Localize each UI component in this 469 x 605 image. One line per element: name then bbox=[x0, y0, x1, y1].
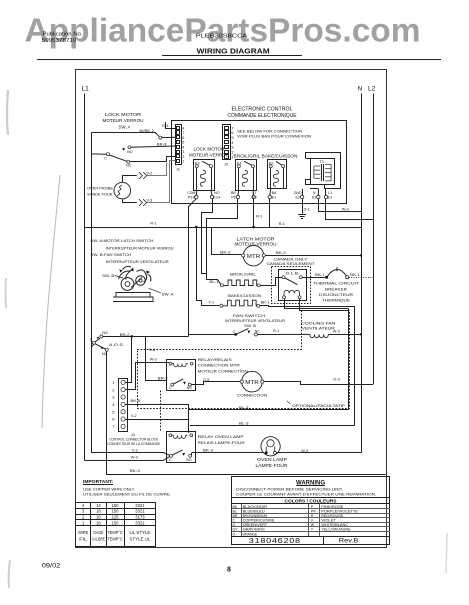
svg-text:3173: 3173 bbox=[135, 515, 145, 520]
svg-text:BR-2: BR-2 bbox=[158, 377, 168, 381]
svg-text:BL-1: BL-1 bbox=[210, 280, 219, 284]
wire BK-2 feed to latch motor bbox=[212, 227, 242, 255]
svg-text:NO: NO bbox=[186, 458, 192, 462]
terminal N E2 bbox=[317, 195, 320, 198]
svg-text:MTR: MTR bbox=[245, 380, 259, 386]
wire J4 pin1 to A.O.S. NO net bbox=[125, 338, 131, 383]
wire J4 pin6 V-2 bbox=[125, 419, 189, 421]
svg-text:E1: E1 bbox=[328, 195, 332, 199]
svg-text:E14: E14 bbox=[213, 195, 220, 199]
wire fan switch to cooling fan coil R-1 bbox=[257, 333, 309, 335]
wire A.O.S. C drop bbox=[92, 344, 94, 347]
terminal COM P10 bbox=[195, 195, 198, 198]
wire to J1 pin6 bbox=[162, 136, 176, 138]
svg-text:VENTILATEUR: VENTILATEUR bbox=[302, 326, 335, 331]
electronic control box bbox=[172, 121, 347, 204]
svg-text:8: 8 bbox=[182, 126, 184, 130]
relay K1 bbox=[236, 160, 257, 191]
svg-text:V-3: V-3 bbox=[132, 448, 138, 452]
svg-text:5: 5 bbox=[182, 141, 184, 145]
svg-text:N: N bbox=[358, 86, 363, 93]
svg-text:6: 6 bbox=[182, 136, 184, 140]
junction dot BR-2 bbox=[131, 335, 134, 338]
header rule bbox=[37, 59, 441, 61]
svg-text:V-2: V-2 bbox=[131, 414, 137, 418]
connector J4 control connector block bbox=[119, 379, 128, 432]
wire K1 coil to terminals bbox=[237, 190, 240, 195]
wire SW.A left loop bbox=[92, 132, 107, 154]
wire relay NO to fan motor O-5 bbox=[191, 382, 241, 385]
terminal SW.A common-right bbox=[159, 136, 162, 139]
svg-text:MTR: MTR bbox=[247, 254, 261, 260]
svg-text:R-1: R-1 bbox=[273, 329, 279, 333]
junction dots on R-1 bus bbox=[195, 226, 198, 229]
svg-text:16: 16 bbox=[96, 515, 101, 520]
svg-text:WHITE/BLANC: WHITE/BLANC bbox=[321, 523, 348, 527]
label optional/facultatif bbox=[287, 401, 290, 404]
svg-text:W-3: W-3 bbox=[131, 455, 138, 459]
svg-text:W: W bbox=[311, 523, 315, 527]
svg-text:COLORS / COULEURS: COLORS / COULEURS bbox=[285, 499, 337, 504]
wire W-3 into lamp relay C bbox=[85, 457, 170, 461]
svg-text:VIOLET: VIOLET bbox=[321, 519, 337, 523]
svg-text:INTERRUPTEUR MOTEUR VERROU: INTERRUPTEUR MOTEUR VERROU bbox=[106, 245, 174, 250]
wire cooling fan to N bbox=[328, 334, 361, 336]
svg-text:125: 125 bbox=[112, 515, 120, 520]
svg-text:BL-3: BL-3 bbox=[239, 406, 249, 410]
svg-text:BK: BK bbox=[233, 505, 238, 509]
svg-text:G-1: G-1 bbox=[304, 207, 310, 211]
svg-text:BROIL/GRIL BAKE/CUISSON: BROIL/GRIL BAKE/CUISSON bbox=[234, 154, 298, 159]
svg-text:V-3: V-3 bbox=[147, 198, 153, 202]
connector J2 bbox=[223, 125, 231, 160]
wire A.O.S. NC drop to BK-3 bbox=[106, 351, 108, 475]
svg-text:O: O bbox=[233, 532, 236, 536]
wire bake trunk Y-1 bbox=[197, 227, 220, 306]
svg-text:J3: J3 bbox=[224, 163, 228, 167]
svg-text:3321: 3321 bbox=[135, 509, 145, 514]
svg-text:WIRING DIAGRAM: WIRING DIAGRAM bbox=[197, 49, 270, 56]
svg-text:CONNECTION: CONNECTION bbox=[237, 393, 267, 398]
svg-text:LOCK MOTOR: LOCK MOTOR bbox=[194, 147, 225, 152]
contact NO of SW.A bbox=[128, 146, 131, 149]
wire breaker to L2 dotted bbox=[349, 277, 373, 279]
svg-text:T1: T1 bbox=[320, 159, 325, 164]
svg-text:R: R bbox=[311, 514, 314, 518]
wire BK-3 bottom bus bbox=[107, 474, 386, 476]
svg-text:SW. A:MOTOR LATCH SWITCH: SW. A:MOTOR LATCH SWITCH bbox=[90, 238, 153, 243]
svg-text:GRAY/GRIS: GRAY/GRIS bbox=[243, 528, 266, 532]
svg-text:318046208: 318046208 bbox=[249, 536, 301, 545]
svg-text:D.L.B.: D.L.B. bbox=[286, 270, 300, 275]
wire E9 drop to bus bbox=[253, 199, 255, 227]
svg-text:7: 7 bbox=[182, 131, 184, 135]
connector J1 bbox=[176, 125, 182, 165]
cooling fan motor MTR bbox=[242, 371, 263, 392]
svg-text:WIRE: WIRE bbox=[78, 530, 89, 535]
svg-text:1: 1 bbox=[182, 160, 184, 164]
svg-text:W-3: W-3 bbox=[333, 330, 340, 334]
svg-text:8: 8 bbox=[227, 567, 231, 574]
svg-text:R-1: R-1 bbox=[256, 215, 262, 219]
svg-text:C: C bbox=[233, 519, 236, 523]
svg-text:PURPLE/VIOLETTE: PURPLE/VIOLETTE bbox=[321, 509, 358, 513]
svg-text:YELLOW/JAUNE: YELLOW/JAUNE bbox=[321, 528, 351, 532]
wire L2 vertical bbox=[373, 94, 375, 385]
svg-text:09/02: 09/02 bbox=[42, 563, 61, 570]
svg-text:SW. B: SW. B bbox=[102, 273, 114, 278]
svg-text:FIL: FIL bbox=[79, 537, 88, 542]
svg-text:BROWN/BRUN: BROWN/BRUN bbox=[243, 514, 268, 518]
svg-text:P6: P6 bbox=[231, 195, 235, 199]
svg-text:VOIR PLUS BAS POUR CONNEXION: VOIR PLUS BAS POUR CONNEXION bbox=[237, 133, 311, 138]
wire L1 E1 to L2 line bbox=[326, 199, 374, 220]
terminal NO E14 bbox=[210, 195, 213, 198]
coil of DLB bbox=[284, 290, 300, 296]
svg-text:14: 14 bbox=[96, 503, 101, 508]
svg-text:PINK/ROSE: PINK/ROSE bbox=[321, 505, 344, 509]
terminal BA E1 of K2 bbox=[268, 195, 271, 198]
svg-text:NC: NC bbox=[126, 164, 132, 168]
svg-text:RED/ROUGE: RED/ROUGE bbox=[321, 514, 344, 518]
svg-text:BK-3: BK-3 bbox=[203, 449, 213, 453]
svg-text:150: 150 bbox=[112, 520, 120, 525]
svg-text:BL: BL bbox=[233, 509, 237, 513]
svg-text:BLUE/BLEU: BLUE/BLEU bbox=[243, 509, 265, 513]
svg-text:THERMIQUE: THERMIQUE bbox=[322, 298, 350, 303]
dashed link relay to lamp relay bbox=[160, 391, 162, 432]
svg-text:OPTIONAL/FACULTATIF: OPTIONAL/FACULTATIF bbox=[292, 403, 346, 408]
thermal circuit breaker bbox=[325, 276, 328, 279]
svg-text:D-8: D-8 bbox=[149, 348, 155, 352]
wire K3 coil to terminals bbox=[195, 190, 198, 195]
wire SW.A loop long vertical bbox=[91, 154, 93, 453]
transformer T1 bbox=[306, 153, 341, 189]
svg-text:3321: 3321 bbox=[135, 503, 145, 508]
svg-text:CALIBRE: CALIBRE bbox=[92, 537, 105, 542]
svg-text:4: 4 bbox=[182, 145, 184, 149]
svg-text:BREAKER: BREAKER bbox=[325, 286, 347, 291]
wire probe V-3 to J1 pin1 bbox=[123, 199, 137, 203]
svg-text:INTERRUPTEUR VENTILATEUR: INTERRUPTEUR VENTILATEUR bbox=[106, 259, 169, 264]
svg-text:J4: J4 bbox=[131, 433, 135, 437]
svg-text:3: 3 bbox=[231, 146, 233, 150]
wire DLB coil returns bbox=[285, 299, 349, 309]
svg-text:CANADA SEULEMENT: CANADA SEULEMENT bbox=[267, 261, 316, 266]
svg-text:BAKE/CUISSON: BAKE/CUISSON bbox=[228, 293, 261, 298]
svg-text:BROIL/GRIL: BROIL/GRIL bbox=[230, 271, 257, 276]
svg-text:BK-2: BK-2 bbox=[276, 251, 286, 255]
svg-text:SONDE FOUR: SONDE FOUR bbox=[87, 191, 113, 196]
svg-text:SW. B: SW. B bbox=[244, 323, 256, 328]
terminal GND E3 bbox=[300, 195, 303, 198]
relay K2 bbox=[268, 160, 287, 189]
wire BK-2 latch motor to N bbox=[265, 255, 361, 257]
wire A.O.S. NO to BR-2 junction bbox=[103, 336, 132, 338]
svg-text:SW. A: SW. A bbox=[162, 291, 174, 296]
svg-text:SW. A: SW. A bbox=[119, 124, 131, 129]
svg-text:RELAY OVEN LAMP: RELAY OVEN LAMP bbox=[198, 434, 244, 439]
svg-text:BK-2: BK-2 bbox=[220, 250, 231, 254]
terminal L1 E1 bbox=[324, 195, 327, 198]
svg-text:COPPER/CUIVRE: COPPER/CUIVRE bbox=[243, 519, 275, 523]
svg-text:MOTEUR-VERROU: MOTEUR-VERROU bbox=[189, 153, 229, 158]
svg-text:W-3: W-3 bbox=[342, 207, 349, 211]
svg-text:5: 5 bbox=[231, 136, 233, 140]
relay K3 bbox=[194, 160, 215, 191]
oven lamp bbox=[261, 437, 280, 456]
wire W-3 to relay coil bbox=[136, 363, 170, 390]
svg-text:A.O.S.: A.O.S. bbox=[109, 342, 124, 347]
svg-text:TEMP°C: TEMP°C bbox=[107, 537, 123, 542]
svg-text:V-2: V-2 bbox=[147, 171, 153, 175]
svg-text:E1: E1 bbox=[272, 195, 276, 199]
svg-text:E9: E9 bbox=[252, 195, 256, 199]
wire oven lamp to N bbox=[276, 452, 361, 454]
contact NC of SW.A bbox=[127, 160, 130, 163]
svg-text:IMPORTANT:: IMPORTANT: bbox=[83, 479, 114, 484]
svg-text:3321: 3321 bbox=[135, 520, 145, 525]
svg-text:3: 3 bbox=[182, 150, 184, 154]
relay connection MTR box bbox=[167, 360, 196, 391]
svg-text:BK-3: BK-3 bbox=[130, 469, 140, 473]
latch mechanism pictorial bbox=[113, 293, 153, 302]
svg-text:MOTEUR VERROU: MOTEUR VERROU bbox=[103, 118, 144, 123]
terminal BR P6 bbox=[236, 195, 239, 198]
svg-text:THERMAL CIRCUIT: THERMAL CIRCUIT bbox=[313, 280, 360, 285]
oven probe sensor bbox=[114, 182, 131, 199]
svg-text:BLACK/NOIR: BLACK/NOIR bbox=[243, 505, 268, 509]
dashed box optional bbox=[137, 311, 349, 409]
svg-text:P10: P10 bbox=[188, 195, 195, 199]
wire fan motor to L2 O-3 bbox=[264, 382, 373, 385]
switch blade SW.A bbox=[109, 155, 127, 161]
svg-text:O-5: O-5 bbox=[203, 378, 209, 382]
svg-text:R-1: R-1 bbox=[150, 222, 156, 226]
svg-text:6: 6 bbox=[231, 131, 233, 135]
svg-text:4: 4 bbox=[231, 141, 233, 145]
wire bake return bbox=[260, 306, 355, 426]
wire broil return trunk bbox=[348, 309, 350, 410]
svg-text:NO: NO bbox=[187, 386, 193, 390]
relay DLB bbox=[279, 270, 307, 301]
svg-text:E3: E3 bbox=[295, 195, 299, 199]
svg-text:BR: BR bbox=[233, 514, 238, 518]
svg-text:MOTEUR CONNECTION: MOTEUR CONNECTION bbox=[198, 369, 248, 374]
scan artifact left curve bbox=[42, 175, 60, 428]
svg-text:R-3: R-3 bbox=[162, 124, 168, 128]
wire BL-3 upper bbox=[189, 409, 349, 411]
svg-text:Publication No.: Publication No. bbox=[43, 31, 83, 37]
svg-text:OVEN LAMP: OVEN LAMP bbox=[257, 457, 287, 462]
svg-text:RELAY/RELAIS: RELAY/RELAIS bbox=[198, 357, 232, 362]
svg-text:C: C bbox=[169, 458, 172, 462]
svg-text:5995378710: 5995378710 bbox=[42, 38, 77, 44]
wire V-3 into lamp relay C bbox=[92, 453, 170, 456]
svg-text:L1: L1 bbox=[82, 86, 90, 93]
wire broil to DLB switch bbox=[260, 278, 282, 286]
wire N vertical bbox=[361, 94, 363, 453]
svg-text:DISJONCTEUR: DISJONCTEUR bbox=[319, 292, 353, 297]
svg-text:150: 150 bbox=[112, 503, 120, 508]
wire J4 pin4 BK-5 bbox=[125, 405, 188, 434]
latch motor MTR bbox=[243, 246, 263, 266]
svg-text:UTILISER SEULEMENT DU FIL DE C: UTILISER SEULEMENT DU FIL DE CUIVRE. bbox=[83, 492, 171, 497]
svg-text:R-1: R-1 bbox=[279, 222, 285, 226]
color code table bbox=[232, 508, 390, 510]
wire K2 coil to terminal bbox=[269, 189, 272, 196]
svg-text:PR: PR bbox=[311, 509, 316, 513]
wire BL-3 lower bbox=[190, 425, 355, 427]
svg-text:W-3: W-3 bbox=[150, 357, 157, 361]
svg-text:AppliancePartsPros.com: AppliancePartsPros.com bbox=[25, 13, 421, 50]
svg-text:LAMPE-FOUR: LAMPE-FOUR bbox=[256, 463, 288, 468]
wire BR-3 from NO contact to J1 pin5 bbox=[131, 146, 176, 147]
svg-text:COMMANDE ELECTRONIQUE: COMMANDE ELECTRONIQUE bbox=[228, 113, 298, 119]
svg-text:E2: E2 bbox=[312, 195, 316, 199]
svg-text:BR-2: BR-2 bbox=[120, 333, 130, 337]
svg-text:O-3: O-3 bbox=[333, 378, 339, 382]
svg-text:CONNECTEUR DE LA COMMANDE: CONNECTEUR DE LA COMMANDE bbox=[107, 442, 160, 446]
diagram frame bbox=[76, 70, 387, 548]
svg-text:BK-1: BK-1 bbox=[261, 300, 270, 304]
wire BR P6 trunk to broil BL-1 bbox=[207, 199, 238, 285]
wire N E2 to N line bbox=[319, 199, 362, 212]
svg-text:150: 150 bbox=[112, 509, 120, 514]
svg-text:BL-3: BL-3 bbox=[239, 422, 249, 426]
ground G-1 bbox=[302, 199, 304, 214]
svg-text:C: C bbox=[169, 386, 172, 390]
svg-text:RELAIS LAMPE-FOUR: RELAIS LAMPE-FOUR bbox=[198, 440, 245, 445]
wire NO E14 trunk bbox=[202, 199, 213, 274]
wire T1 to terminals bbox=[317, 189, 319, 196]
svg-text:CONNECTION MTR: CONNECTION MTR bbox=[198, 363, 240, 368]
svg-text:ELECTRONIC CONTROL: ELECTRONIC CONTROL bbox=[232, 106, 293, 112]
svg-text:GREEN/VERT: GREEN/VERT bbox=[243, 523, 268, 527]
svg-text:BK-5: BK-5 bbox=[130, 399, 140, 403]
wire BK-3 relay NO to oven lamp bbox=[191, 453, 193, 456]
wire J4 pin2 up to W-3 bbox=[125, 389, 135, 391]
svg-text:SW. B:FAN SWITCH: SW. B:FAN SWITCH bbox=[90, 252, 131, 257]
svg-text:UL STYLE: UL STYLE bbox=[130, 530, 151, 535]
svg-text:OVEN PROBE: OVEN PROBE bbox=[87, 185, 113, 190]
svg-text:Rev.B: Rev.B bbox=[339, 537, 359, 544]
svg-text:W-3: W-3 bbox=[301, 449, 308, 453]
svg-text:COOLING FAN: COOLING FAN bbox=[301, 320, 335, 325]
svg-text:C: C bbox=[104, 156, 107, 160]
svg-text:Y-1: Y-1 bbox=[209, 300, 215, 304]
svg-text:TEMP°C: TEMP°C bbox=[107, 530, 123, 535]
wire R-1 bus bbox=[85, 227, 362, 229]
terminal L1 E9 bbox=[252, 195, 255, 198]
warning box bbox=[232, 477, 390, 545]
wire L1 vertical bbox=[84, 94, 86, 461]
svg-text:7: 7 bbox=[231, 126, 233, 130]
svg-text:NO: NO bbox=[127, 150, 133, 154]
wire fan line bbox=[132, 336, 189, 338]
svg-text:PLEB30S8CCA: PLEB30S8CCA bbox=[196, 34, 248, 40]
svg-text:COUPER LE COURANT AVANT D'EFFE: COUPER LE COURANT AVANT D'EFFECTUER UNE … bbox=[236, 491, 376, 496]
svg-text:STYLE UL: STYLE UL bbox=[130, 537, 151, 542]
dashed box canada only DLB bbox=[272, 267, 311, 304]
svg-text:GY: GY bbox=[233, 528, 239, 532]
wire DLB switch to thermal breaker bbox=[302, 277, 325, 279]
svg-text:16: 16 bbox=[96, 520, 101, 525]
wire R-3 stub from J1 pin8 bbox=[166, 122, 176, 129]
svg-text:GAGE: GAGE bbox=[93, 530, 104, 535]
contact C of SW.A bbox=[107, 153, 110, 156]
svg-text:NO: NO bbox=[102, 331, 108, 335]
wire probe V-2 to J1 pin2 bbox=[123, 176, 137, 183]
svg-text:G: G bbox=[233, 523, 236, 527]
svg-text:CONTROL CONNECTOR BLOCK: CONTROL CONNECTOR BLOCK bbox=[109, 438, 158, 442]
svg-text:LOCK MOTOR: LOCK MOTOR bbox=[105, 112, 141, 117]
svg-text:L2: L2 bbox=[368, 86, 376, 93]
wire COM P10 to fan line trunk bbox=[189, 199, 197, 335]
wire BA drop to bus bbox=[269, 199, 271, 227]
wire BR-2 to relay C bbox=[146, 336, 167, 380]
svg-text:BK-1: BK-1 bbox=[315, 273, 325, 277]
svg-text:J1: J1 bbox=[176, 168, 180, 172]
svg-text:18: 18 bbox=[96, 509, 101, 514]
relay oven lamp box bbox=[167, 432, 196, 463]
svg-text:2: 2 bbox=[182, 155, 184, 159]
svg-text:BR-3: BR-3 bbox=[157, 143, 167, 147]
wire NC to J1 pin2 bbox=[130, 157, 176, 162]
svg-text:BK-1: BK-1 bbox=[350, 273, 360, 277]
wire gauge table bbox=[76, 502, 156, 504]
